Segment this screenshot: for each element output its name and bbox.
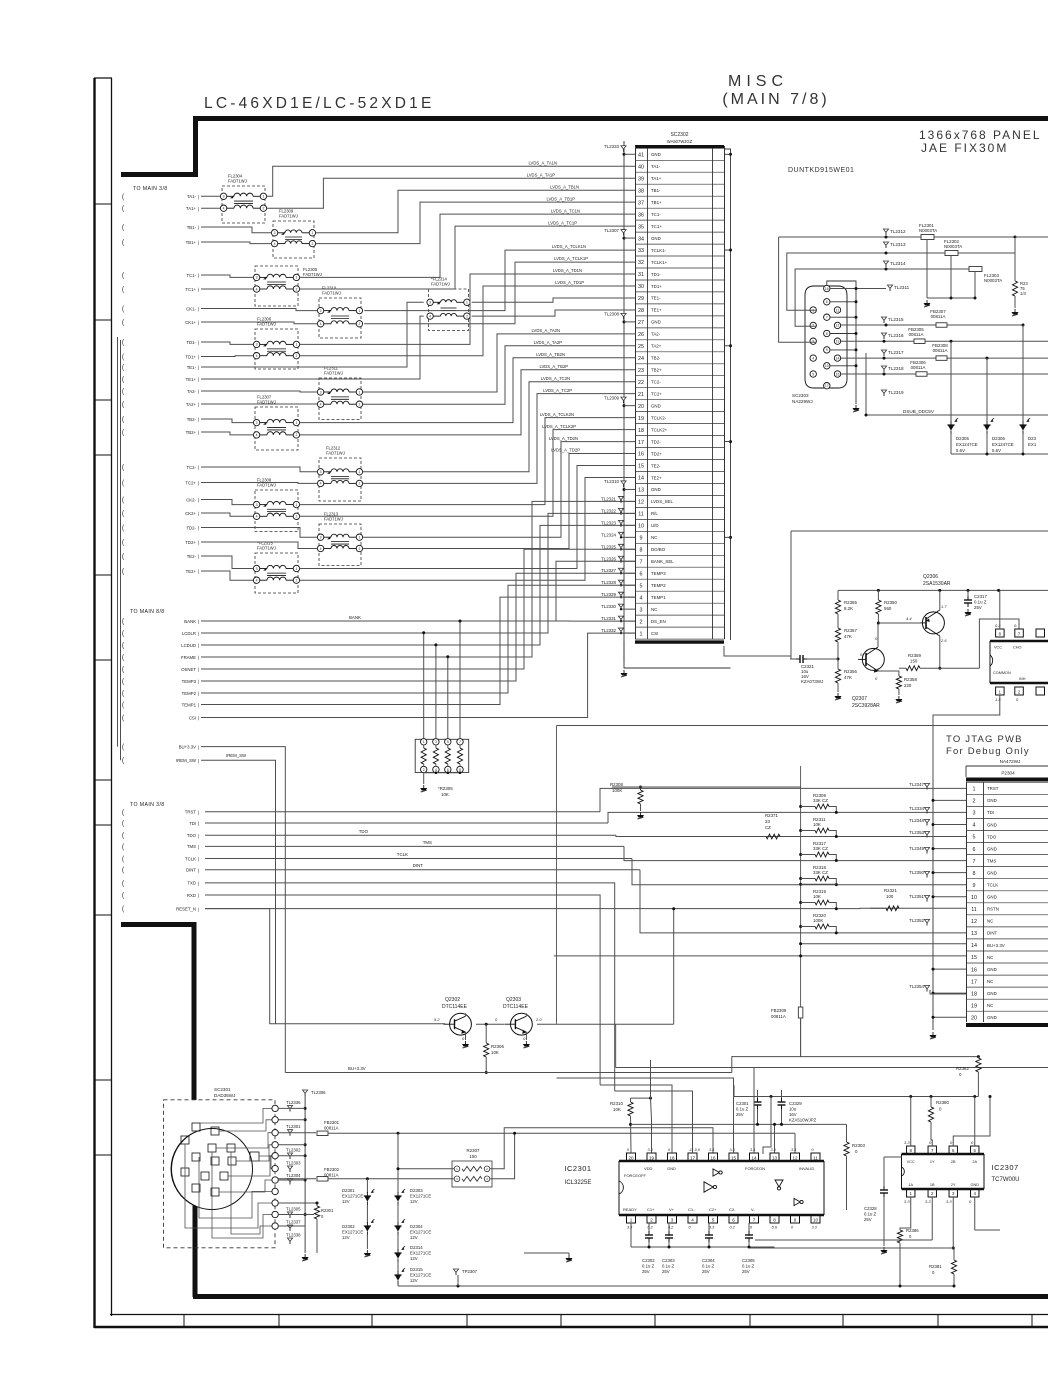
svg-text:GND: GND [651,152,661,157]
svg-text:TL2323: TL2323 [601,520,616,525]
svg-text:CZ: CZ [765,825,771,830]
svg-text:17: 17 [971,979,977,985]
svg-text:12: 12 [638,500,644,506]
svg-text:DSUB_DDC5V: DSUB_DDC5V [903,409,935,414]
transistor Q2307 2SC3928AR [862,648,884,670]
svg-text:TCLK1+: TCLK1+ [651,260,668,265]
svg-text:TCLK: TCLK [397,852,408,857]
svg-text:1: 1 [295,567,297,571]
svg-text:TL2350: TL2350 [909,870,924,875]
svg-text:150: 150 [910,659,918,664]
svg-text:12V: 12V [410,1256,418,1261]
svg-text:EX1271CE: EX1271CE [410,1194,431,1199]
svg-text:TMS: TMS [423,840,432,845]
svg-text:2: 2 [640,619,643,625]
svg-text:OSNET: OSNET [181,667,196,672]
svg-text:TB2-: TB2- [187,417,197,422]
svg-text:TE1+: TE1+ [186,377,197,382]
svg-text:TMS: TMS [987,858,996,863]
filter FL2302 N0003TA [945,251,958,256]
svg-text:TC2-: TC2- [651,380,661,385]
svg-text:30: 30 [638,284,644,290]
wire zener gnd rail [951,453,1048,455]
svg-text:C1+: C1+ [647,1207,655,1212]
svg-text:GND: GND [651,320,661,325]
wires R2305 risers [423,633,425,739]
wire TMS pin7 [205,845,624,847]
svg-text:TA1+: TA1+ [186,206,197,211]
svg-text:3.3: 3.3 [627,1226,633,1230]
wires ic2307 bottom [900,1197,911,1230]
svg-text:EX1271CE: EX1271CE [410,1230,431,1235]
svg-text:TD1+: TD1+ [185,354,196,359]
zener D2305 EX1247CE [950,341,952,421]
svg-text:1: 1 [295,503,297,507]
svg-text:EX1247CE: EX1247CE [992,442,1014,447]
svg-text:TL2311: TL2311 [894,285,910,290]
svg-text:4: 4 [320,322,322,326]
svg-text:TE1-: TE1- [187,365,197,370]
svg-text:NC: NC [651,607,657,612]
svg-text:LVDS_A_TA1P: LVDS_A_TA1P [527,172,555,177]
svg-text:3.3: 3.3 [709,1226,715,1230]
svg-text:16: 16 [638,452,644,458]
svg-text:3.3: 3.3 [904,1199,910,1204]
svg-text:27: 27 [638,320,644,326]
svg-text:TRST: TRST [185,810,197,815]
wire TL2313 row [787,253,1015,310]
svg-text:3.3: 3.3 [771,1148,777,1152]
wire bus bottom [801,1018,979,1057]
svg-text:6: 6 [640,571,643,577]
svg-text:1: 1 [295,421,297,425]
svg-text:12V: 12V [410,1199,418,1204]
svg-text:TL2354: TL2354 [909,984,924,989]
svg-text:R2307: R2307 [467,1148,480,1153]
svg-text:TL2321: TL2321 [601,496,616,501]
svg-text:TD1-: TD1- [186,340,196,345]
svg-text:3: 3 [320,390,322,394]
svg-text:2: 2 [295,354,297,358]
svg-text:6: 6 [973,847,976,853]
svg-text:KZA510WJPZ: KZA510WJPZ [789,1118,817,1123]
svg-text:15: 15 [731,1156,737,1161]
svg-text:LVDS_A_TD1N: LVDS_A_TD1N [553,268,582,273]
svg-text:FAD71WJ: FAD71WJ [228,179,247,184]
svg-text:TEMP3: TEMP3 [182,679,197,684]
svg-text:D2304: D2304 [410,1224,423,1229]
svg-text:R2371: R2371 [765,813,778,818]
svg-text:FB2301: FB2301 [324,1120,340,1125]
page frame left border [93,78,95,1328]
svg-text:10: 10 [638,524,644,530]
svg-text:10u: 10u [789,1107,797,1112]
resistor R2301 0 [278,1214,314,1216]
svg-text:100K: 100K [813,918,823,923]
wire BU33 pin14 [801,943,966,945]
svg-text:4: 4 [274,242,276,246]
svg-text:Q2303: Q2303 [506,997,521,1003]
svg-text:2: 2 [812,324,814,328]
svg-text:3: 3 [320,309,322,313]
svg-text:TB1-: TB1- [187,225,197,230]
svg-text:LVDS_A_TA2N: LVDS_A_TA2N [532,328,560,333]
svg-text:C2328: C2328 [864,1206,877,1211]
wire Q2303 out [537,1023,674,1025]
svg-text:R2359: R2359 [908,653,921,658]
transistor Q2302 DTC114EE [450,1013,472,1035]
svg-text:41: 41 [638,152,644,158]
resistor R2321 100 [886,906,899,911]
wire vcc row 1097 [734,1096,978,1098]
wire FL2304 in-bot -> pin 39 [201,207,220,209]
svg-text:TL2336: TL2336 [286,1100,301,1105]
svg-text:TL2327: TL2327 [601,568,616,573]
svg-text:5: 5 [712,1218,715,1223]
svg-text:38: 38 [638,188,644,194]
svg-text:20: 20 [628,1156,634,1161]
svg-text:TL2330: TL2330 [601,604,616,609]
svg-text:TD1-: TD1- [651,272,661,277]
svg-text:RESET_N: RESET_N [176,906,196,911]
svg-text:1.7: 1.7 [941,604,947,609]
wire TDO pin5 [205,834,616,836]
svg-text:VCC: VCC [907,1160,915,1164]
svg-text:15: 15 [638,464,644,470]
wire FL2309 in-top -> pin 38 [201,227,271,233]
svg-text:TDO: TDO [987,834,997,839]
svg-text:FAD71WJ: FAD71WJ [257,546,276,551]
svg-text:2: 2 [423,768,425,772]
svg-text:TL2313: TL2313 [890,242,906,247]
svg-text:TL2307: TL2307 [604,228,619,233]
svg-text:8: 8 [826,332,828,336]
svg-text:0.2: 0.2 [648,1226,654,1230]
wire Q2302-Q2303 link [476,1023,504,1025]
svg-text:DO/BO: DO/BO [651,547,666,552]
wire TL2318 FB2306 [841,373,1048,375]
svg-text:FRAME: FRAME [181,655,196,660]
svg-text:GND: GND [987,895,997,900]
svg-text:D23: D23 [1028,436,1037,441]
svg-text:GND: GND [987,1015,997,1020]
JTAG gnd bus [932,778,934,1030]
svg-text:TEMP2: TEMP2 [651,583,666,588]
svg-text:P2304: P2304 [1001,771,1015,776]
resistor R2350 560 [877,590,879,600]
svg-text:FORCEOFF: FORCEOFF [624,1173,647,1178]
svg-text:9: 9 [640,536,643,542]
svg-text:TC2+: TC2+ [185,480,196,485]
svg-text:1B: 1B [930,1183,935,1187]
svg-text:9: 9 [794,1218,797,1223]
svg-text:TE2-: TE2- [187,554,197,559]
svg-text:NC: NC [987,979,993,984]
svg-text:DINT: DINT [413,863,424,868]
svg-text:LVDS_A_TD2P: LVDS_A_TD2P [551,448,580,453]
svg-text:TC7W00U: TC7W00U [992,1177,1020,1183]
svg-text:14: 14 [836,356,840,360]
zener diodes D2301-D2315 [366,1179,368,1193]
svg-text:TDI: TDI [987,810,994,815]
svg-text:LVDS_A_TB2P: LVDS_A_TB2P [539,364,568,369]
wire DSUB_DDC5V [866,353,1048,415]
svg-text:5.6V: 5.6V [992,448,1001,453]
svg-text:TL2322: TL2322 [601,508,616,513]
svg-text:15: 15 [971,955,977,961]
svg-text:TL2301: TL2301 [286,1124,301,1129]
svg-text:8: 8 [459,768,461,772]
svg-text:14: 14 [638,476,644,482]
svg-text:R2310: R2310 [610,1101,623,1106]
svg-text:4: 4 [256,515,258,519]
svg-text:2SC3928AR: 2SC3928AR [852,703,880,709]
wire FL2307 in-bot -> pin 23 [201,432,253,435]
svg-text:CK2-: CK2- [186,497,196,502]
svg-text:NC: NC [651,535,657,540]
svg-text:U/D: U/D [651,523,659,528]
svg-text:TD2-: TD2- [651,439,661,444]
svg-text:FAD71WJ: FAD71WJ [279,214,298,219]
svg-text:3.3: 3.3 [925,1199,931,1204]
svg-text:BANK: BANK [184,619,196,624]
svg-text:For Debug Only: For Debug Only [946,746,1030,757]
svg-text:33K CZ: 33K CZ [813,870,828,875]
svg-text:TE2+: TE2+ [651,475,662,480]
svg-text:TB2-: TB2- [651,356,661,361]
svg-text:1: 1 [311,231,313,235]
svg-text:NC: NC [987,955,993,960]
svg-text:N0003TA: N0003TA [919,228,937,233]
svg-text:3: 3 [973,811,976,817]
capacitor C2304 0.1uZ [708,1223,710,1232]
svg-text:R2358: R2358 [904,677,917,682]
wire TRST pin1 [205,811,600,813]
wire FL2306 in-bot -> pin 30 [201,355,253,358]
svg-text:4: 4 [256,579,258,583]
svg-text:TE2+: TE2+ [186,569,197,574]
svg-text:16: 16 [825,287,829,291]
svg-text:12V: 12V [410,1235,418,1240]
svg-text:R2308: R2308 [610,782,623,787]
svg-text:35: 35 [638,224,644,230]
svg-text:100: 100 [469,1154,477,1159]
svg-text:11: 11 [813,1156,818,1161]
svg-text:8: 8 [973,871,976,877]
svg-text:25V: 25V [702,1269,710,1274]
svg-text:TMS: TMS [187,844,196,849]
SC2302 right bus wire [724,149,731,640]
svg-text:13: 13 [836,340,840,344]
svg-text:R2355: R2355 [844,600,857,605]
svg-text:TEMP2: TEMP2 [182,691,197,696]
wire TL2315 FB2307 [841,324,1023,326]
wire FL filters to ground [927,297,975,299]
svg-text:WA507WJGZ: WA507WJGZ [667,139,693,144]
svg-text:TL2317: TL2317 [888,350,904,355]
resistor R2304 75 [1012,281,1017,296]
svg-text:12: 12 [792,1156,798,1161]
svg-text:2: 2 [295,579,297,583]
svg-text:TL2352: TL2352 [909,918,924,923]
svg-text:20: 20 [971,1015,977,1021]
svg-text:LVDS_A_TB2N: LVDS_A_TB2N [536,352,565,357]
svg-text:4.4: 4.4 [906,616,912,621]
schematic border bottom-left [193,1174,198,1297]
wire CK1+ via FL2310 to pin32 [201,322,317,324]
svg-text:R2356: R2356 [844,669,857,674]
svg-text:FAD71WJ: FAD71WJ [431,282,450,287]
svg-text:TL2351: TL2351 [909,894,924,899]
svg-text:LVDS_A_TC2P: LVDS_A_TC2P [543,388,572,393]
svg-text:33K CZ: 33K CZ [813,798,828,803]
wire FL2312 in-top -> pin 22 [201,467,317,472]
svg-text:7: 7 [640,559,643,565]
svg-text:TD2-: TD2- [186,525,196,530]
svg-text:26: 26 [638,332,644,338]
svg-text:1366x768 PANEL: 1366x768 PANEL [919,128,1042,142]
SC2302 right bus extra taps [729,440,732,443]
svg-text:2.0: 2.0 [535,1017,542,1022]
svg-text:Q2302: Q2302 [445,997,460,1003]
svg-text:DTC114EE: DTC114EE [503,1004,529,1010]
svg-text:C2305: C2305 [742,1258,755,1263]
svg-text:BANK: BANK [349,615,361,620]
svg-text:TB1+: TB1+ [186,240,197,245]
wire TDI pin3 [205,822,608,824]
svg-text:4: 4 [256,354,258,358]
svg-text:1: 1 [973,787,976,793]
svg-text:TE2-: TE2- [651,463,661,468]
svg-text:R2303: R2303 [852,1143,865,1148]
wire TE1- to FL2314 [201,302,424,367]
schematic border top step [121,172,196,177]
svg-text:2SA1530AR: 2SA1530AR [923,581,951,587]
page frame bottom border [94,1326,1048,1329]
connector SC2303 NA229WJ D-sub [805,286,847,388]
wire TE1+ to FL2314 [201,316,424,379]
zener D2306 EX1247CE [986,358,988,421]
svg-text:LCDLR: LCDLR [182,631,196,636]
svg-text:DTC114EE: DTC114EE [442,1004,468,1010]
svg-text:16: 16 [971,967,977,973]
svg-text:NC: NC [987,1003,993,1008]
svg-text:11: 11 [971,907,977,913]
svg-text:33: 33 [638,248,644,254]
svg-text:R2301: R2301 [321,1208,334,1213]
svg-text:TL2347: TL2347 [909,782,924,787]
svg-text:TB2+: TB2+ [651,368,662,373]
svg-text:LVDS_A_TCLK1P: LVDS_A_TCLK1P [554,256,588,261]
svg-text:25V: 25V [662,1269,670,1274]
filter FL2303 N0003TA [969,267,982,272]
svg-text:1/4: 1/4 [1020,291,1026,296]
svg-text:D2315: D2315 [410,1267,423,1272]
svg-text:TC1-: TC1- [651,212,661,217]
svg-text:3: 3 [256,503,258,507]
svg-text:INVALID: INVALID [799,1166,814,1171]
svg-text:NA229WJ: NA229WJ [792,399,813,404]
svg-text:C1-: C1- [688,1207,695,1212]
svg-text:TEMP3: TEMP3 [651,571,666,576]
svg-text:FB2302: FB2302 [324,1167,340,1172]
svg-text:Q2306: Q2306 [923,574,938,580]
svg-text:DINT: DINT [186,868,196,873]
svg-text:R2357: R2357 [844,628,857,633]
svg-text:7: 7 [826,316,828,320]
wire RSTN from RESET_N [205,907,886,909]
svg-text:CK1-: CK1- [186,306,196,311]
svg-text:R2306: R2306 [491,1044,504,1049]
svg-text:TL2333: TL2333 [604,144,619,149]
svg-text:TE1-: TE1- [651,296,661,301]
svg-text:4: 4 [973,823,976,829]
svg-text:24: 24 [638,356,644,362]
svg-text:D2303: D2303 [410,1188,423,1193]
left edge vertical wires [117,337,119,747]
svg-text:TA2-: TA2- [187,389,197,394]
svg-text:LCDUD: LCDUD [181,643,196,648]
svg-text:KZA073WJ: KZA073WJ [801,679,823,684]
svg-text:12V: 12V [342,1199,350,1204]
svg-text:29: 29 [638,296,644,302]
svg-text:TL2318: TL2318 [888,366,904,371]
svg-text:D2302: D2302 [342,1224,355,1229]
svg-text:3.3: 3.3 [730,1148,736,1152]
svg-text:LVDS_A_TCLK1N: LVDS_A_TCLK1N [552,244,586,249]
svg-text:CSI: CSI [189,715,196,720]
svg-text:3: 3 [429,301,431,305]
svg-text:8: 8 [640,547,643,553]
IC IC2307 TC7W00U [902,1153,985,1156]
svg-text:33: 33 [765,819,770,824]
svg-text:12V: 12V [410,1278,418,1283]
svg-text:16: 16 [710,1156,716,1161]
capacitor C2303 0.1uZ [668,1223,670,1232]
svg-text:1: 1 [358,390,360,394]
svg-text:3: 3 [320,536,322,540]
svg-text:V+: V+ [669,1207,675,1212]
svg-text:2: 2 [650,1218,653,1223]
svg-text:4: 4 [320,547,322,551]
svg-text:18: 18 [669,1156,675,1161]
svg-text:19: 19 [638,416,644,422]
svg-text:2: 2 [295,515,297,519]
svg-text:0.1u Z: 0.1u Z [742,1264,755,1269]
svg-text:SC2303: SC2303 [792,393,809,398]
svg-text:5: 5 [640,583,643,589]
wire pin15 NC [554,955,966,957]
svg-text:-11.0,0: -11.0,0 [689,1148,701,1152]
svg-text:TL2309: TL2309 [604,395,619,400]
svg-text:Q2307: Q2307 [852,696,867,702]
svg-text:3: 3 [640,607,643,613]
svg-text:17: 17 [690,1156,696,1161]
svg-text:TB2+: TB2+ [186,430,197,435]
svg-text:12V: 12V [342,1235,350,1240]
IC IC2301 ICL3225E [619,1160,824,1163]
svg-text:3.3: 3.3 [791,1148,797,1152]
svg-text:47K: 47K [844,634,852,639]
svg-text:TO JTAG PWB: TO JTAG PWB [946,734,1023,745]
wire q2306 loop border [791,530,1048,532]
svg-text:TC2+: TC2+ [651,391,662,396]
svg-text:TO MAIN 3/8: TO MAIN 3/8 [133,186,168,192]
svg-text:2: 2 [358,547,360,551]
wire FL2313 in-top -> pin 17 [201,528,317,538]
svg-text:(MAIN 7/8): (MAIN 7/8) [722,91,829,108]
ground left of caps [568,1255,570,1258]
